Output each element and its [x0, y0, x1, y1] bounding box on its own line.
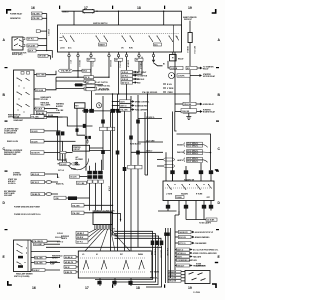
grid tick bottom 2: [112, 284, 113, 287]
svg-text:810 R-W: 810 R-W: [179, 237, 186, 239]
accessory row 2: [86, 84, 110, 87]
column bundle wires down: [90, 183, 102, 210]
row y176: [57, 175, 87, 179]
svg-text:L TURN: L TURN: [166, 194, 173, 196]
column bundle id boxes: [87, 180, 103, 183]
corner mark top-left: [6, 9, 11, 14]
svg-text:L RLK: L RLK: [108, 186, 110, 192]
svg-text:RADIO B+: RADIO B+: [56, 182, 64, 185]
svg-text:LAMPS: LAMPS: [177, 159, 184, 162]
svg-text:57A-2 BK: 57A-2 BK: [72, 204, 80, 207]
svg-text:57D-2 BK: 57D-2 BK: [41, 99, 49, 101]
svg-text:511 W-BK: 511 W-BK: [207, 220, 215, 222]
headlamp row y112 id box: [36, 111, 60, 115]
starter solenoid circle: [169, 73, 175, 79]
column bundle connector blobs: [87, 171, 102, 179]
terminal T9 stub box: [170, 52, 177, 61]
terminal id box T3: [87, 58, 95, 61]
svg-text:19 LB-R: 19 LB-R: [31, 131, 38, 133]
horn relay row wire: [175, 103, 183, 105]
svg-text:RELAY: RELAY: [178, 57, 184, 60]
radio feed row 1: [150, 270, 185, 273]
svg-text:297 W: 297 W: [85, 77, 90, 79]
svg-text:16: 16: [32, 286, 36, 290]
turnsignal bottom stub 3: [184, 201, 188, 216]
turn signal contact 4: [208, 184, 212, 189]
connector pair drop left: [86, 86, 92, 171]
right edge dash: [215, 169, 218, 170]
svg-text:977: 977: [88, 60, 91, 62]
left callout row 3 wire: [44, 141, 63, 160]
radio suppressor pins: [188, 272, 205, 281]
headlamp switch box: [14, 70, 35, 118]
svg-text:298 P-O: 298 P-O: [120, 106, 127, 108]
dimmer blob terminal a: [18, 256, 23, 259]
left callout row 1 text: [8, 114, 21, 119]
svg-text:HEADLAMP: HEADLAMP: [14, 119, 24, 122]
splice row id box: [82, 69, 91, 72]
svg-text:19: 19: [188, 286, 192, 290]
svg-text:687 GY-O: 687 GY-O: [122, 83, 130, 85]
relay K1 box: [12, 37, 23, 50]
fan wire 4: [85, 229, 105, 251]
fuse vertical 131: [130, 96, 132, 251]
row y198 horn feed: [54, 196, 90, 200]
svg-text:BLOWER: BLOWER: [76, 159, 84, 161]
svg-text:OFF: OFF: [207, 197, 210, 199]
svg-text:INT: INT: [120, 254, 123, 256]
wiper contact 1: [83, 260, 89, 270]
row y88 id box: [84, 87, 97, 90]
wiper dashed gang: [80, 271, 146, 273]
svg-text:810 R-W: 810 R-W: [77, 237, 84, 239]
left callout row 4 text: [4, 149, 23, 156]
bundle wire 4 to right: [115, 238, 162, 246]
mid vertical 112: [113, 94, 118, 235]
turnsignal feed blob 2: [184, 166, 188, 181]
cluster feed wire b: [90, 147, 104, 149]
ac blower label: [76, 156, 84, 161]
starter motor arrow: [190, 75, 201, 77]
svg-text:57A-2 BK: 57A-2 BK: [56, 109, 64, 112]
svg-text:32 R-LB: 32 R-LB: [109, 60, 111, 67]
svg-text:687 GY-O: 687 GY-O: [32, 182, 40, 184]
main feed wire: [62, 11, 182, 25]
fuse vertical 131 blob: [129, 136, 133, 140]
headlamp switch top terminal 1: [21, 72, 24, 75]
svg-text:FUEL CARRIER: FUEL CARRIER: [135, 108, 148, 111]
cluster feed wire a: [58, 160, 67, 163]
svg-text:A/C CLUTCH: A/C CLUTCH: [98, 81, 109, 84]
svg-text:RELAY: RELAY: [203, 68, 209, 71]
ground bus junction 1: [112, 93, 113, 94]
key box drop wire: [77, 108, 85, 135]
grid half tick right 1: [216, 67, 219, 68]
fan wire 7: [111, 229, 131, 251]
fuse vertical 117 blob: [116, 151, 120, 155]
radio feed row 4: [168, 280, 185, 283]
svg-text:HAZARD: HAZARD: [181, 193, 189, 196]
turnsignal feed blob 1: [170, 170, 174, 181]
turnsignal feed blob 4: [209, 170, 213, 181]
svg-text:2 W-LB: 2 W-LB: [57, 233, 63, 235]
turn signal contact 2: [182, 184, 191, 190]
row y77 wire: [56, 76, 109, 78]
svg-text:CORNERING LAMPS SW: CORNERING LAMPS SW: [177, 259, 197, 262]
headlamp feed jog: [49, 59, 51, 61]
running board arrow: [196, 111, 202, 113]
ground wire id box: [0, 0, 1, 1]
terminal T8 diode: [152, 52, 163, 66]
row y77 junction a: [77, 77, 78, 78]
fuse row arrow b: [157, 165, 175, 168]
lower left row 1 id box: [31, 172, 45, 176]
left callout row 1 id box: [31, 115, 45, 119]
svg-text:HIGH MOUNT STOP LP: HIGH MOUNT STOP LP: [195, 232, 214, 234]
svg-text:33 W-PK: 33 W-PK: [178, 76, 185, 78]
starter aux row 3: [163, 92, 173, 94]
grid half tick right 2: [216, 121, 219, 122]
svg-text:SWITCH (COLUMN): SWITCH (COLUMN): [14, 276, 30, 278]
jog wire blob: [83, 124, 86, 128]
radio suppressor title: [196, 264, 205, 268]
row y183: [56, 181, 89, 185]
starter aux row 1: [163, 84, 172, 86]
left callout row 2 text: [4, 127, 19, 134]
wire relay upper to bus: [38, 38, 47, 40]
svg-text:SPEED CONTROL AMPLIFIER: SPEED CONTROL AMPLIFIER: [193, 252, 217, 255]
splice pair ground: [86, 139, 89, 143]
svg-text:B15: B15: [187, 68, 190, 70]
horn brush inner circle: [75, 162, 78, 165]
wire id box 57E-2 BK: [32, 17, 43, 20]
svg-text:16 BK-O: 16 BK-O: [62, 11, 69, 13]
dimmer row y251: [31, 251, 60, 253]
fuse vertical 138: [137, 95, 139, 247]
svg-text:SEDAN: SEDAN: [177, 144, 184, 147]
svg-text:57 LT GRN-YL: 57 LT GRN-YL: [187, 153, 198, 155]
row3 wire extension: [63, 140, 76, 142]
wire 57F feed to column: [48, 56, 52, 60]
svg-text:HORN RELAY: HORN RELAY: [203, 103, 215, 106]
terminal T3: [90, 52, 92, 85]
ignition contact set 3: [122, 36, 135, 42]
junction T1 row: [68, 70, 70, 72]
fuse vertical 138 blob a: [136, 120, 140, 124]
wiper feed id a: [64, 255, 78, 258]
svg-text:57 BK-Y: 57 BK-Y: [146, 151, 153, 153]
svg-text:57A-2 BK: 57A-2 BK: [169, 270, 177, 273]
column callout bus: [175, 211, 179, 281]
svg-text:57 LT GRN-YL: 57 LT GRN-YL: [187, 146, 198, 148]
bundle wire 2 to right: [115, 234, 156, 246]
svg-text:RELAY (BAT): RELAY (BAT): [12, 53, 23, 56]
wiper contact 2: [101, 260, 107, 270]
turn signal contact 3: [196, 184, 205, 190]
grid tick top 3: [164, 6, 165, 9]
right feed label two line: [183, 16, 197, 21]
wiper contact 3: [123, 260, 129, 270]
svg-text:57B-2 BK: 57B-2 BK: [169, 275, 177, 277]
svg-text:977 P-O: 977 P-O: [28, 39, 35, 41]
grid half tick right 3: [216, 171, 219, 172]
left callout row 2 wire: [44, 131, 60, 160]
headlamp internal contacts upper: [17, 78, 30, 82]
fan wire 6: [111, 229, 116, 251]
svg-text:TO IGNITION: TO IGNITION: [137, 75, 148, 77]
left bundle blob b: [61, 131, 64, 135]
headlamp switch top terminal 2: [27, 72, 30, 75]
wiper bottom stub 1: [97, 278, 101, 286]
fan wire 1: [89, 229, 96, 233]
svg-text:IGN LAMP: IGN LAMP: [4, 194, 13, 197]
dimmer row y262: [31, 261, 60, 264]
wire from generator label: [42, 17, 47, 19]
fusible link F2: [83, 9, 94, 13]
lower left row 3 connector oval: [46, 193, 52, 196]
svg-text:LIGHTER: LIGHTER: [73, 165, 81, 167]
left callout row 4 id box: [31, 151, 45, 155]
ignition contact set 5: [169, 36, 179, 42]
svg-text:41 BK-W: 41 BK-W: [127, 60, 130, 68]
clock circle: [96, 103, 101, 108]
svg-text:199 LB-Y: 199 LB-Y: [177, 265, 185, 267]
wire id box lower feed: [28, 49, 36, 52]
ignition contact set 1: [63, 36, 75, 42]
svg-text:977 P-O: 977 P-O: [57, 242, 64, 244]
running board row wire: [175, 111, 183, 113]
left callout row 1 wire: [44, 116, 58, 160]
dimmer row y257: [31, 256, 60, 259]
starter motor id box: [177, 74, 190, 78]
wiper feed rows left text a: [52, 256, 63, 260]
lower left row 2 id box: [31, 180, 45, 184]
svg-text:941 BK-PK: 941 BK-PK: [31, 152, 40, 155]
svg-text:941 BK-PK: 941 BK-PK: [65, 261, 74, 264]
svg-text:57C-2 BK: 57C-2 BK: [37, 75, 45, 77]
row y77 id box: [84, 76, 94, 79]
grid half tick left 4: [5, 229, 8, 230]
fuse feed drop to hazard box: [165, 152, 167, 181]
svg-text:R TURN: R TURN: [196, 194, 203, 196]
fan wire 2: [89, 229, 99, 237]
fuse link component: [36, 30, 47, 33]
junction dot feed c: [163, 11, 164, 12]
central id box row a: [100, 127, 115, 130]
fuse vertical 145: [144, 112, 146, 175]
wiper feed id c: [64, 265, 78, 268]
svg-text:56 BK-P: 56 BK-P: [33, 270, 40, 272]
fuse vertical 110: [110, 112, 112, 251]
dimmer contact lower: [17, 262, 26, 265]
svg-text:687 GY-O: 687 GY-O: [193, 46, 195, 54]
fuse row arrow a: [157, 158, 175, 161]
svg-text:LOCK: LOCK: [60, 48, 65, 50]
accessory row 1: [86, 81, 109, 84]
terminal T5: [117, 52, 119, 94]
dimmer label: [14, 273, 33, 278]
wire from power relay label: [42, 13, 47, 15]
left callout row 3 id box: [31, 140, 45, 144]
radio suppressor box: [185, 271, 210, 284]
svg-text:BRAKE WARNING: BRAKE WARNING: [195, 236, 210, 239]
svg-text:B1: B1: [163, 64, 165, 66]
fuse vertical 103 blob a: [101, 120, 105, 124]
row y85 wire with connectors: [75, 83, 104, 86]
column callout tight row d: [175, 259, 197, 262]
fuse row y152: [131, 151, 163, 153]
ignition contact set 3 labels: [121, 48, 133, 50]
mid callout row 2: [112, 104, 149, 108]
svg-text:S TERM: S TERM: [167, 88, 174, 90]
wiper box feed wire y247: [46, 246, 162, 248]
lower left row 2 connector oval: [46, 181, 52, 184]
steering column connector box: [93, 212, 112, 225]
power window row id: [72, 204, 85, 208]
ground label box: [181, 109, 197, 113]
svg-text:TO B/U LAMPS: TO B/U LAMPS: [199, 222, 212, 225]
svg-text:57A-2 BK GROUND: 57A-2 BK GROUND: [142, 91, 158, 94]
svg-text:57A-2 BK: 57A-2 BK: [120, 109, 128, 112]
row y81 wire: [56, 80, 94, 82]
svg-text:57A-2 BK: 57A-2 BK: [72, 212, 80, 215]
splice pair blob a: [85, 136, 88, 139]
ignition contact set 2 label box: [99, 43, 107, 46]
ignition inner divider right: [174, 25, 178, 52]
lower left row 3 text: [4, 190, 17, 197]
svg-text:20 T-LG: 20 T-LG: [58, 170, 65, 172]
fuse vertical 103 blob b: [101, 150, 105, 154]
starter aux row 2: [163, 88, 174, 90]
relay terminal stub lower: [23, 44, 25, 46]
svg-text:ILLUM B+: ILLUM B+: [8, 183, 16, 185]
cluster feed box: [73, 145, 90, 151]
svg-text:265 T-O: 265 T-O: [177, 249, 184, 251]
svg-text:AIR BLEND DR: AIR BLEND DR: [98, 89, 111, 92]
starter relay row id box 1: [170, 66, 183, 70]
svg-text:977 P-O: 977 P-O: [179, 243, 186, 245]
door lock row wire: [84, 212, 113, 214]
dimmer inner divider: [27, 240, 29, 272]
right edge dash E area: [215, 262, 218, 263]
svg-text:SUPPR KIT: SUPPR KIT: [196, 266, 205, 268]
svg-text:POWER DOOR LOCK SWITCH ILL: POWER DOOR LOCK SWITCH ILL: [14, 214, 41, 216]
fuse row y118: [138, 117, 162, 119]
column callout row 1: [175, 230, 214, 234]
svg-text:57 LT GRN-YL: 57 LT GRN-YL: [187, 161, 198, 163]
svg-text:57A-2 BK-W: 57A-2 BK-W: [61, 70, 71, 73]
right small verticals blobs: [164, 233, 170, 236]
headlamp row y104 text: [41, 102, 52, 107]
right small verticals: [166, 228, 171, 283]
bundle wire 3 to right: [115, 236, 159, 246]
svg-text:FLASH: FLASH: [176, 196, 182, 199]
svg-text:158 BK-PK: 158 BK-PK: [32, 194, 41, 196]
wire bottom link y211: [158, 210, 177, 212]
svg-text:SOLENOID RES: SOLENOID RES: [135, 105, 148, 107]
svg-text:32 R-LB: 32 R-LB: [171, 68, 178, 70]
relay terminal stub upper: [23, 38, 25, 40]
terminal T4: [108, 52, 110, 77]
left callout row 4 wire: [44, 153, 65, 161]
svg-text:FUSE BLOCK: FUSE BLOCK: [130, 144, 142, 146]
turn signal contact 1: [167, 184, 176, 190]
bundle wire 1 to right: [115, 231, 153, 246]
grid half tick right 4: [216, 229, 219, 230]
dimmer blob terminal b: [18, 265, 23, 268]
svg-text:28 BK-PK: 28 BK-PK: [65, 272, 73, 274]
left callout row 2 id box: [31, 129, 45, 133]
turnsignal bottom stub 5: [202, 201, 206, 216]
fuse vertical 138 blob b: [136, 151, 140, 155]
fan wire 5: [100, 229, 108, 251]
terminal id box T7: [135, 58, 143, 61]
horn brush arc: [66, 159, 89, 170]
radio feed row 2: [168, 273, 185, 276]
svg-text:1-1-P096: 1-1-P096: [193, 292, 200, 294]
svg-text:19 LB-R: 19 LB-R: [36, 109, 43, 111]
wire vertical feed left: [46, 14, 48, 51]
wiper dashed gang upper: [80, 257, 146, 259]
svg-text:HORN: HORN: [71, 169, 77, 171]
right mid horizontal y134: [177, 134, 211, 170]
bundle blob cluster: [151, 241, 164, 246]
ignition contact set 2: [96, 36, 109, 42]
svg-text:SPEED CONTROL: SPEED CONTROL: [135, 101, 149, 103]
turn signal switch box: [163, 181, 214, 201]
long ground bus y94: [95, 93, 190, 95]
svg-text:TAIL LAMPS: TAIL LAMPS: [41, 104, 52, 107]
ignition module callout row 3: [121, 77, 145, 81]
turnsignal bottom stub 2: [178, 201, 180, 216]
svg-text:WAGON: WAGON: [177, 151, 184, 154]
steering column connector title: [93, 210, 116, 212]
starter relay row id box 2: [186, 66, 197, 70]
right fuse wire lower: [189, 43, 191, 109]
svg-text:57C-2 BK: 57C-2 BK: [36, 90, 44, 92]
wiper bottom stub 2: [112, 278, 116, 286]
wiper internal labels: [82, 253, 144, 256]
ignition switch box: [58, 25, 182, 52]
svg-text:57A-2: 57A-2: [83, 70, 88, 73]
right fuse F18: [188, 33, 192, 43]
turnsignal bottom stub 6: [209, 201, 213, 211]
running board id box: [183, 110, 196, 114]
wire id box 57F feed: [38, 54, 48, 57]
svg-text:DEFROST: DEFROST: [184, 19, 192, 21]
accessory row 3: [86, 88, 110, 92]
svg-text:16 BK-O: 16 BK-O: [186, 46, 188, 54]
fan wire 3: [89, 229, 102, 241]
svg-text:19 LB-R: 19 LB-R: [31, 141, 38, 143]
lower left row 3 id box: [31, 192, 45, 196]
horn relay id box: [183, 102, 196, 106]
svg-text:POWER RELAY: POWER RELAY: [10, 12, 23, 15]
turn signal dashed line: [165, 187, 212, 189]
wire relay lower to bus: [38, 45, 47, 47]
wiper contact 4: [139, 260, 145, 270]
feed drop 3: [163, 11, 165, 25]
ignition contact set 4 label box: [154, 43, 162, 46]
wire splice row to T3: [73, 70, 91, 72]
wiper feed id b: [64, 260, 78, 263]
wire id box relay lower: [27, 44, 38, 47]
wire id box relay upper: [27, 37, 38, 40]
cluster group row 2: [177, 150, 210, 156]
turnsignal bottom stub 4: [195, 201, 197, 216]
connector right wire: [112, 214, 121, 222]
svg-text:WIPER: WIPER: [52, 258, 58, 260]
